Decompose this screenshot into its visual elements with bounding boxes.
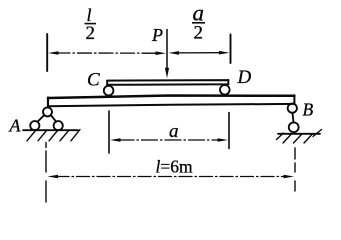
- svg-text:l: l: [87, 5, 92, 25]
- svg-text:A: A: [9, 116, 22, 136]
- svg-text:2: 2: [86, 23, 96, 44]
- svg-text:D: D: [237, 67, 252, 88]
- svg-text:P: P: [151, 25, 163, 45]
- svg-text:B: B: [303, 100, 314, 120]
- svg-text:a: a: [169, 121, 179, 142]
- svg-text:l=6m: l=6m: [156, 157, 193, 177]
- svg-text:C: C: [87, 70, 100, 91]
- svg-text:2: 2: [194, 23, 204, 44]
